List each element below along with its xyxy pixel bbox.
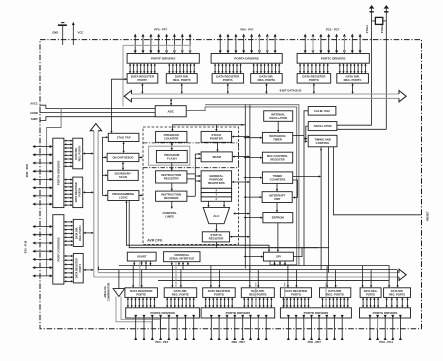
- USART: [127, 252, 156, 261]
- wire JTAG chain vertical: [102, 136, 108, 196]
- grey frame around program flash: [149, 146, 190, 165]
- XTAL1 pin with terminal symbol: [365, 5, 374, 125]
- svg-text:ON-CHIP DEBUG: ON-CHIP DEBUG: [113, 155, 134, 159]
- svg-text:DECODER: DECODER: [164, 196, 179, 200]
- wire watchdog timer to timing cluster: [293, 135, 304, 137]
- arrow DATA DIR. REG. PORTF to data bus: [181, 84, 183, 93]
- svg-text:REGISTER: REGISTER: [270, 157, 284, 161]
- GENERAL PURPOSE REGISTERS: [201, 171, 232, 189]
- svg-text:SRAM: SRAM: [212, 155, 221, 159]
- arrows registers to ALU: [207, 201, 225, 207]
- arrows PORTA drivers to data register: [214, 63, 242, 73]
- JTAG TAP: [108, 133, 139, 141]
- grey peripheral overlays on bottom pins: [140, 262, 378, 329]
- 8-bit data bus (top, grey double line): [124, 91, 406, 102]
- port driver box PORTB DRIVERS: [201, 308, 275, 318]
- stub timer/counters to internal bus: [245, 177, 262, 179]
- PROGRAM COUNTER: [156, 131, 187, 142]
- arrows PORTJ drivers to data register: [64, 255, 73, 283]
- PORTH pins: [32, 145, 53, 206]
- svg-text:PJ0 - PJ6: PJ0 - PJ6: [23, 240, 27, 253]
- arrow DATA REGISTER PORTA to data bus: [227, 84, 229, 93]
- port driver box PORTH DRIVERS (vertical): [53, 138, 64, 207]
- svg-text:PORTH: PORTH: [78, 188, 81, 197]
- svg-text:VCC: VCC: [78, 30, 84, 34]
- stub SPI to internal bus: [245, 256, 263, 258]
- wire calib osc to timing and control: [304, 111, 308, 266]
- grey comparator input wires: [116, 297, 160, 330]
- arrow program counter to program flash: [171, 143, 173, 149]
- svg-text:PORTB DRIVERS: PORTB DRIVERS: [226, 311, 251, 315]
- svg-text:REG. PORTF: REG. PORTF: [173, 78, 191, 82]
- TIMING AND CONTROL: [308, 135, 337, 147]
- arrows PORTJ drivers to data dir reg: [64, 221, 73, 246]
- wire status register down: [215, 242, 217, 248]
- box DATA REGISTER PORTH (vertical): [73, 177, 83, 208]
- wire PORTF data register to JTAG TAP: [110, 78, 127, 133]
- arrow on-chip debug to AVR CPU: [139, 156, 142, 158]
- stub interrupt unit to internal bus: [245, 196, 262, 198]
- svg-text:PORTC DRIVERS: PORTC DRIVERS: [321, 56, 346, 60]
- svg-text:ALU: ALU: [213, 214, 219, 218]
- wire EEPROM down to SPI: [277, 223, 279, 251]
- svg-text:PA0 - PA7: PA0 - PA7: [241, 27, 254, 31]
- svg-text:-: -: [121, 290, 122, 293]
- stub stack pointer to bus: [233, 136, 249, 138]
- svg-text:AREF: AREF: [31, 117, 39, 121]
- EEPROM: [263, 213, 293, 223]
- arrow DATA DIR. REG. PORTC to data bus: [352, 84, 354, 93]
- OSCILLATOR: [308, 122, 337, 131]
- arrow timer/counters to interrupt unit: [276, 183, 278, 190]
- svg-text:PF0 - PF7: PF0 - PF7: [154, 27, 167, 31]
- grey analog input line to PORTF: [123, 45, 190, 106]
- svg-text:POINTER: POINTER: [210, 137, 224, 141]
- box DATA REGISTER PORTF: [127, 74, 158, 84]
- svg-text:ANALOG: ANALOG: [103, 286, 107, 297]
- wire bus to stack pointer: [215, 125, 217, 131]
- svg-text:PORTF DRIVERS: PORTF DRIVERS: [151, 56, 175, 60]
- svg-text:PORTH DRIVERS: PORTH DRIVERS: [56, 161, 60, 186]
- svg-text:EEPROM: EEPROM: [272, 216, 285, 220]
- RESET wire to pin: [333, 147, 429, 221]
- grey analog supply wire down to comparator: [47, 109, 62, 276]
- wire timer/counters to interrupt unit right side: [293, 180, 298, 199]
- PORTG pins PG0 - PG4: [369, 315, 402, 340]
- arrow DATA DIR REG PORTJ to left bus: [84, 232, 93, 234]
- svg-text:OSCILLATOR: OSCILLATOR: [269, 116, 287, 120]
- svg-text:PORTJ DRIVERS: PORTJ DRIVERS: [56, 237, 60, 261]
- arrows data wires into DATA DIR REG PORTB: [249, 266, 260, 288]
- stub EEPROM to internal bus: [245, 217, 262, 219]
- stub ALU to bus: [234, 213, 249, 215]
- arrow ALU to status register: [215, 224, 217, 231]
- svg-text:PORTA DRIVERS: PORTA DRIVERS: [234, 56, 258, 60]
- svg-text:PORTG: PORTG: [366, 292, 375, 296]
- AVR CPU dashed boundary: [143, 127, 238, 244]
- arrows PORTF drivers to data dir reg: [168, 63, 195, 73]
- arrows universal serial interface to data wires: [171, 262, 189, 270]
- svg-text:SPI: SPI: [276, 255, 281, 259]
- svg-text:UNIT: UNIT: [274, 197, 281, 201]
- arrows PORTA drivers to data dir reg: [253, 63, 281, 73]
- svg-text:SCAN: SCAN: [119, 175, 127, 179]
- stub watchdog to internal bus: [245, 137, 262, 139]
- arrow interrupt unit to EEPROM: [276, 203, 278, 212]
- arrow ADC to data bus: [170, 99, 172, 104]
- arrow program flash to instruction register: [171, 163, 173, 170]
- AGND pin: [30, 111, 155, 115]
- arrows PORTC drivers to data dir reg: [339, 63, 367, 73]
- PORTB pins PB0 - PB7: [210, 315, 268, 340]
- svg-text:REGISTER: REGISTER: [164, 177, 180, 181]
- 8-bit data bus (left vertical + bottom, grey): [90, 124, 406, 281]
- svg-text:REG. PORTH: REG. PORTH: [78, 146, 81, 162]
- svg-text:USART: USART: [137, 255, 147, 259]
- SRAM: [201, 152, 232, 162]
- data wire row 2: [99, 267, 397, 270]
- arrows PORTD regs to drivers: [282, 297, 349, 307]
- arrow DATA REGISTER PORTF to data bus: [141, 84, 143, 93]
- grey ADC output bus to timing/control and SPI: [186, 105, 299, 266]
- STATUS REGISTER: [202, 232, 229, 242]
- CALIB. OSC: [308, 107, 336, 116]
- arrow stack pointer to SRAM: [217, 142, 219, 151]
- Z register: [201, 197, 232, 201]
- svg-text:XTAL1: XTAL1: [365, 25, 369, 34]
- arrows PORTH drivers to data register: [64, 179, 73, 207]
- port driver box PORTF DRIVERS: [127, 54, 199, 64]
- arrows USART to data wires: [133, 261, 152, 270]
- wire XTAL2 to oscillator: [337, 128, 386, 130]
- grey peripheral lines on PORTC pins: [313, 36, 344, 52]
- stub status register to bus: [231, 236, 249, 238]
- wire timing and control down to ports: [320, 147, 329, 273]
- X register: [201, 188, 232, 192]
- arrows PORTB regs to drivers: [205, 297, 273, 307]
- arrows PORTH drivers to data dir reg: [64, 140, 73, 168]
- svg-text:8-BIT DATA BUS: 8-BIT DATA BUS: [280, 89, 302, 93]
- svg-text:ADC: ADC: [167, 109, 174, 113]
- stub registers to bus: [233, 181, 249, 183]
- svg-text:PORTE: PORTE: [136, 292, 146, 296]
- arrow DATA REGISTER PORTJ to left bus: [84, 269, 93, 271]
- box DATA DIR REG PORTB: [241, 288, 274, 298]
- box DATA REGISTER PORTJ (vertical): [73, 254, 83, 283]
- svg-text:AVR CPU: AVR CPU: [147, 239, 163, 243]
- arrows data wires into DATA REGISTER PORTB: [210, 266, 221, 288]
- svg-text:XTAL2: XTAL2: [380, 25, 384, 34]
- BOUNDARY-SCAN: [108, 170, 138, 180]
- svg-text:COUNTERS: COUNTERS: [270, 177, 286, 181]
- PORTC pins PC0 - PC7: [304, 34, 362, 54]
- box DATA REGISTER PORTB: [203, 288, 236, 298]
- op-amp style ALU trapezoid: [203, 207, 229, 223]
- svg-text:REG. PORTB: REG. PORTB: [249, 292, 266, 296]
- svg-text:CALIB. OSC: CALIB. OSC: [314, 109, 330, 113]
- svg-text:PORTJ: PORTJ: [79, 263, 82, 272]
- memory section dash-dot lines: [143, 143, 238, 168]
- arrows data wires into DATA DIR REG PORTE: [171, 266, 182, 288]
- internal bus vertical wire A: [244, 105, 246, 269]
- arrow DATA REGISTER PORTH to left bus: [84, 191, 93, 193]
- AVCC pin: [30, 101, 186, 108]
- port driver box PORTA DRIVERS: [211, 54, 282, 64]
- box DATA REGISTER PORTC: [297, 74, 331, 84]
- internal bus vertical wire B: [249, 105, 251, 273]
- svg-text:REG. PORTE: REG. PORTE: [172, 292, 189, 296]
- WATCHDOG TIMER: [262, 132, 292, 143]
- arrows PORTF drivers to data register: [129, 63, 156, 73]
- stub SRAM to bus: [233, 156, 249, 158]
- svg-text:OSCILLATOR: OSCILLATOR: [314, 124, 332, 128]
- svg-text:PORTC: PORTC: [309, 78, 320, 82]
- box DATA DIR. REG. PORTC: [337, 74, 369, 84]
- PORTA pins PA0 - PA7: [219, 34, 277, 54]
- svg-text:AGND: AGND: [30, 111, 38, 115]
- svg-text:REG. PORTC: REG. PORTC: [344, 78, 363, 82]
- XTAL2 pin with terminal symbol: [380, 5, 389, 129]
- wire data bus to program counter: [171, 124, 245, 131]
- INSTRUCTION DECODER: [156, 191, 187, 201]
- svg-text:PORTA: PORTA: [223, 78, 234, 82]
- UNIVERSAL SERIAL INTERFACE: [164, 252, 200, 262]
- PROGRAM FLASH: [156, 151, 187, 163]
- wire SPI top connections: [250, 248, 329, 257]
- svg-text:LOGIC: LOGIC: [119, 195, 128, 199]
- arrows data wires into DATA DIR REG PORTG: [388, 266, 399, 288]
- arrows data wires into DATA REGISTER PORTD: [287, 266, 298, 288]
- arrows PORTG regs to drivers: [362, 297, 409, 307]
- svg-text:REGISTERS: REGISTERS: [208, 181, 225, 185]
- box DATA REGISTER PORTG: [360, 288, 381, 298]
- svg-text:PORTD: PORTD: [291, 292, 301, 296]
- ON-CHIP DEBUG: [107, 153, 139, 161]
- svg-text:LINES: LINES: [165, 215, 174, 219]
- wire timer/counters to timing lines: [293, 176, 320, 178]
- wire instruction register to general purpose registers: [187, 153, 201, 196]
- arrow DATA DIR REG PORTH to left bus: [84, 153, 93, 155]
- svg-text:REG. PORTA: REG. PORTA: [258, 78, 277, 82]
- svg-text:PD0 - PD7: PD0 - PD7: [308, 340, 322, 344]
- data wire row 3: [158, 280, 390, 282]
- box DATA REGISTER PORTE: [125, 288, 157, 298]
- arrows PORTE regs to drivers: [127, 297, 195, 307]
- arrow internal oscillator to watchdog timer: [277, 121, 279, 131]
- svg-text:CONTROL: CONTROL: [316, 141, 330, 145]
- svg-text:PH0 - PH7: PH0 - PH7: [25, 163, 29, 177]
- box DATA DIR. REG. PORTF: [166, 74, 197, 84]
- data wire row 1: [119, 265, 390, 267]
- port driver box PORTE DRIVERS: [126, 308, 200, 318]
- arrows SPI to data wires: [273, 261, 286, 266]
- INTERRUPT UNIT: [262, 192, 292, 203]
- svg-text:REG. PORTG: REG. PORTG: [389, 292, 405, 296]
- VCC pin (arrow up): [72, 22, 83, 45]
- box DATA DIR. REG. PORTH (vertical): [73, 138, 83, 169]
- svg-text:PE0 - PE7: PE0 - PE7: [155, 340, 169, 344]
- PROGRAMMING LOGIC: [108, 191, 139, 201]
- INSTRUCTION REGISTER: [156, 171, 187, 183]
- STACK POINTER: [201, 131, 232, 142]
- arrow programming logic to AVR CPU: [139, 194, 142, 196]
- arrow instruction register to instruction decoder: [171, 183, 173, 190]
- box DATA DIR. REG. PORTJ (vertical): [73, 219, 83, 246]
- wire XTAL1 to oscillator: [337, 124, 372, 126]
- svg-text:JTAG TAP: JTAG TAP: [117, 135, 131, 139]
- svg-text:REG. PORTJ: REG. PORTJ: [79, 225, 82, 241]
- arrows data wires into DATA DIR REG PORTD: [326, 266, 337, 288]
- analog comparator: [103, 270, 125, 302]
- PORTF pins PF0 - PF7: [134, 34, 192, 54]
- box DATA DIR. REG. PORTA: [251, 74, 283, 84]
- box DATA DIR REG PORTD: [320, 288, 351, 298]
- Y register: [201, 193, 232, 197]
- MCU CONTROL REGISTER: [262, 152, 292, 163]
- wire oscillator to timing and control: [305, 126, 308, 143]
- grey peripheral lines on PORTA pins: [259, 36, 267, 52]
- PORTE pins PE0 - PE7: [134, 315, 195, 340]
- svg-text:FLASH: FLASH: [167, 156, 177, 160]
- TIMER/COUNTERS: [262, 172, 292, 184]
- control lines arrow: [171, 201, 173, 208]
- arrow JTAG TAP to on-chip debug: [123, 143, 125, 153]
- svg-text:REG. PORTD: REG. PORTD: [326, 292, 343, 296]
- arrow DATA DIR. REG. PORTA to data bus: [265, 84, 267, 93]
- svg-text:PG0 - PG4: PG0 - PG4: [379, 340, 393, 344]
- box DATA REGISTER PORTD: [280, 288, 311, 298]
- PORTJ pins: [32, 225, 53, 277]
- svg-text:COMPARATOR: COMPARATOR: [107, 283, 111, 302]
- stub MCU control reg to internal bus: [245, 157, 262, 159]
- ADC: [155, 106, 186, 117]
- svg-text:SERIAL INTERFACE: SERIAL INTERFACE: [169, 256, 194, 260]
- SPI: [263, 252, 293, 261]
- box DATA DIR REG PORTE: [164, 288, 197, 298]
- svg-text:DATA REG.: DATA REG.: [364, 289, 378, 293]
- arrows data wires into DATA REGISTER PORTG: [362, 266, 373, 288]
- port driver box PORTD DRIVERS: [280, 308, 351, 318]
- port driver box PORTC DRIVERS: [297, 54, 369, 64]
- port driver box PORTG DRIVERS: [360, 308, 411, 318]
- arrows data wires into DATA REGISTER PORTE: [132, 266, 143, 288]
- svg-text:COUNTER: COUNTER: [164, 137, 179, 141]
- svg-text:TIMER: TIMER: [273, 137, 282, 141]
- svg-text:GND: GND: [52, 30, 58, 34]
- chip boundary (dash-dot border): [40, 40, 422, 329]
- svg-text:PORTE DRIVERS: PORTE DRIVERS: [150, 311, 175, 315]
- svg-text:REGISTER: REGISTER: [209, 237, 225, 241]
- ground symbol GND pin: [52, 23, 67, 45]
- wire programming logic down to SPI: [125, 201, 318, 253]
- port driver box PORTJ DRIVERS (vertical): [53, 215, 64, 284]
- AREF pin: [31, 117, 156, 121]
- crystal between XTAL1 and XTAL2: [372, 17, 387, 24]
- svg-text:RESET: RESET: [426, 211, 430, 221]
- svg-text:PORTF: PORTF: [138, 78, 148, 82]
- PORTD pins PD0 - PD7: [287, 315, 344, 340]
- svg-text:PORTD DRIVERS: PORTD DRIVERS: [304, 311, 329, 315]
- INTERNAL OSCILLATOR: [264, 111, 293, 122]
- svg-text:DATA DIR.: DATA DIR.: [391, 289, 404, 293]
- svg-text:PORTG DRIVERS: PORTG DRIVERS: [373, 311, 398, 315]
- arrow on-chip debug to boundary-scan: [122, 163, 124, 170]
- box DATA REGISTER PORTA: [212, 74, 244, 84]
- svg-text:PB0 - PB7: PB0 - PB7: [232, 340, 246, 344]
- svg-text:PORTB: PORTB: [214, 292, 224, 296]
- box DATA DIR REG PORTG: [384, 288, 411, 298]
- arrows PORTC drivers to data register: [299, 63, 329, 73]
- svg-text:AVCC: AVCC: [30, 101, 37, 105]
- svg-text:PC0 - PC7: PC0 - PC7: [326, 27, 340, 31]
- arrow DATA REGISTER PORTC to data bus: [313, 84, 315, 93]
